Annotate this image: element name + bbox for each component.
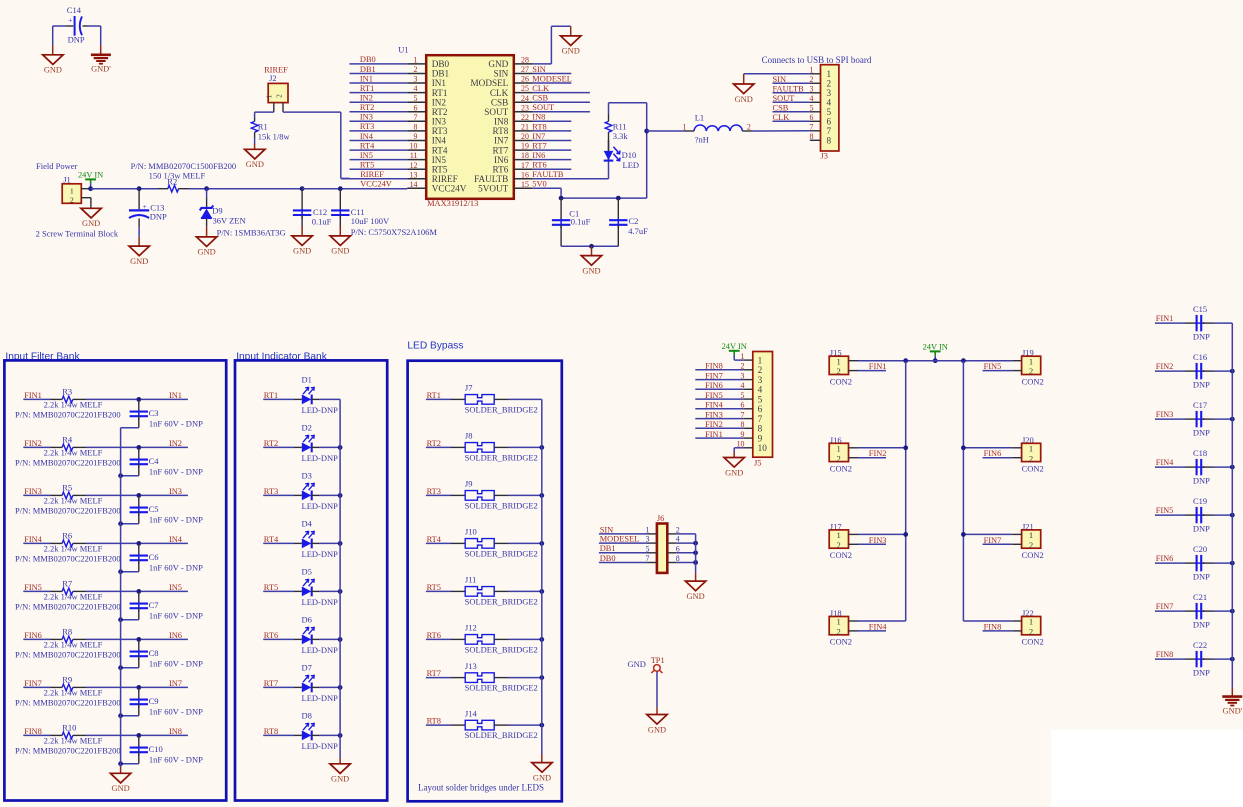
- svg-text:D5: D5: [302, 566, 312, 576]
- wire net FIN8 to J22-2: [983, 630, 1013, 632]
- LED D10: [608, 140, 610, 161]
- svg-text:10: 10: [758, 443, 768, 453]
- svg-text:TP1: TP1: [651, 656, 665, 665]
- svg-text:RT6: RT6: [427, 631, 441, 640]
- wire net RT7: [533, 149, 572, 151]
- svg-text:FIN1: FIN1: [24, 391, 42, 400]
- svg-text:FIN2: FIN2: [869, 449, 887, 458]
- pin J16-1: [849, 447, 859, 449]
- wire J6-2 to GND bus: [677, 533, 696, 535]
- svg-text:CON2: CON2: [1022, 637, 1044, 647]
- svg-text:17: 17: [521, 161, 529, 170]
- wire D8 to bus: [312, 734, 319, 736]
- svg-text:15k 1/8w: 15k 1/8w: [258, 132, 291, 142]
- pin U1-7 IN3: [407, 120, 426, 122]
- svg-text:2: 2: [275, 94, 284, 98]
- wire J6 GND bus: [695, 534, 697, 573]
- pin U1-5 IN2: [407, 101, 426, 103]
- capacitor C12: [301, 189, 303, 211]
- svg-text:IN7: IN7: [169, 679, 182, 688]
- junction C6: [136, 541, 141, 546]
- ground GND (C14 left): [43, 55, 63, 65]
- svg-text:J12: J12: [465, 623, 477, 633]
- svg-text:L1: L1: [695, 112, 704, 122]
- wire C22 to bus: [1213, 658, 1232, 660]
- svg-text:P/N: 1SMB36AT3G: P/N: 1SMB36AT3G: [217, 227, 286, 237]
- svg-text:GND: GND: [627, 659, 645, 669]
- junction J6 GND bus 8: [693, 560, 698, 565]
- wire filter bank bus: [120, 428, 122, 767]
- svg-text:U1: U1: [398, 45, 408, 55]
- svg-text:FAULTB: FAULTB: [532, 170, 564, 179]
- svg-text:GND': GND': [91, 65, 111, 74]
- svg-text:2.2k 1/4w MELF: 2.2k 1/4w MELF: [44, 447, 103, 457]
- junction filter bus row 6: [118, 665, 123, 670]
- wire RT4 to J10: [426, 542, 451, 544]
- wire D9 to GND: [206, 227, 208, 237]
- wire net MODESEL to J6-3: [599, 542, 648, 544]
- wire RT3 to J9: [426, 494, 451, 496]
- svg-text:RT4: RT4: [264, 535, 279, 544]
- svg-text:4.7uF: 4.7uF: [628, 226, 648, 236]
- svg-text:DNP: DNP: [1193, 475, 1210, 485]
- svg-text:IN3: IN3: [169, 487, 182, 496]
- pin J22-1: [1012, 620, 1021, 622]
- wire J11 to bus: [494, 590, 508, 592]
- svg-text:1: 1: [1029, 530, 1033, 540]
- svg-text:Connects to USB to SPI board: Connects to USB to SPI board: [762, 55, 872, 65]
- svg-text:RT1: RT1: [360, 84, 374, 93]
- pin J3-8: [810, 139, 821, 141]
- pin U1-19 RT7: [514, 149, 533, 151]
- svg-text:GND: GND: [130, 257, 148, 266]
- wire J16-1 to bus: [858, 447, 906, 449]
- svg-text:19: 19: [521, 142, 529, 151]
- svg-text:24V IN: 24V IN: [923, 342, 948, 351]
- pin J5-6: [743, 408, 753, 410]
- svg-text:RT8: RT8: [532, 122, 546, 131]
- junction C11: [338, 186, 343, 191]
- svg-text:2: 2: [414, 65, 418, 74]
- svg-text:P/N: MMB02070C2201FB200: P/N: MMB02070C2201FB200: [15, 554, 121, 564]
- wire U1 pin28 GND: [533, 63, 552, 65]
- svg-text:3: 3: [414, 75, 418, 84]
- wire R4 to junction: [87, 446, 188, 448]
- junction filter bus row 7: [118, 713, 123, 718]
- pin J5-1: [743, 359, 753, 361]
- svg-text:C15: C15: [1193, 304, 1207, 314]
- svg-text:J14: J14: [465, 708, 478, 718]
- svg-text:FIN5: FIN5: [24, 583, 42, 592]
- wire net RT2 to U1 pin 6: [350, 111, 408, 113]
- LED D8: [302, 731, 312, 741]
- junction filter bus row 4: [118, 569, 123, 574]
- wire C21 to bus: [1213, 610, 1232, 612]
- svg-text:IN6: IN6: [169, 631, 182, 640]
- svg-text:2: 2: [1029, 627, 1033, 637]
- svg-text:5V0: 5V0: [532, 180, 546, 189]
- pin J18-2: [849, 630, 859, 632]
- svg-text:1nF 60V - DNP: 1nF 60V - DNP: [149, 658, 203, 668]
- svg-text:IN4: IN4: [432, 136, 447, 146]
- LED D6: [302, 635, 312, 645]
- svg-text:GND: GND: [725, 468, 743, 477]
- svg-text:12: 12: [410, 161, 418, 170]
- svg-text:GND: GND: [198, 248, 216, 257]
- svg-text:D2: D2: [302, 422, 312, 432]
- wire net RT1 to U1 pin 4: [350, 92, 408, 94]
- capacitor C16: [1155, 370, 1185, 372]
- ground GND (U1 pin28): [561, 36, 581, 46]
- svg-text:IN2: IN2: [432, 97, 447, 107]
- wire net FIN2 to J16-2: [858, 457, 886, 459]
- svg-text:R8: R8: [62, 626, 72, 636]
- ground GND (TP1): [647, 715, 667, 725]
- wire net FIN3 to J5-7: [695, 418, 743, 420]
- wire RT6 to J12: [426, 638, 451, 640]
- wire L1 to J3 pin7: [742, 130, 752, 132]
- ground GND (filter bank): [110, 773, 130, 783]
- svg-text:J6: J6: [657, 514, 664, 523]
- svg-text:IN2: IN2: [169, 439, 182, 448]
- wire D6 to bus: [312, 638, 319, 640]
- svg-text:P/N: MMB02070C2201FB200: P/N: MMB02070C2201FB200: [15, 458, 121, 468]
- svg-text:13: 13: [410, 170, 418, 179]
- wire J3 pin1 to GND: [744, 73, 810, 75]
- svg-text:RT3: RT3: [427, 487, 441, 496]
- svg-text:FIN8: FIN8: [24, 727, 42, 736]
- svg-text:D8: D8: [302, 710, 312, 720]
- LED D1: [302, 395, 312, 405]
- wire 5V0 from U1 pin15: [560, 188, 562, 198]
- svg-text:CLK: CLK: [773, 113, 790, 122]
- svg-text:CON2: CON2: [830, 376, 852, 386]
- junction C2: [616, 196, 621, 201]
- svg-text:FIN1: FIN1: [705, 430, 723, 439]
- ground GND (J5): [724, 458, 744, 468]
- capacitor C8: [138, 639, 140, 651]
- wire net SIN to J6-1: [599, 533, 648, 535]
- svg-text:IN7: IN7: [532, 132, 545, 141]
- svg-text:FIN6: FIN6: [1156, 554, 1174, 563]
- svg-text:Layout solder bridges under LE: Layout solder bridges under LEDS: [418, 783, 544, 793]
- svg-text:C8: C8: [149, 648, 159, 658]
- svg-text:5VOUT: 5VOUT: [478, 184, 508, 194]
- svg-text:C3: C3: [149, 408, 159, 418]
- pin J5-10: [743, 447, 753, 449]
- svg-text:FIN4: FIN4: [705, 401, 723, 410]
- svg-text:J3: J3: [821, 152, 828, 161]
- svg-text:1: 1: [683, 123, 687, 132]
- wire to GND (C1/C2): [591, 246, 593, 255]
- ground GND (bypass bank): [532, 763, 552, 773]
- svg-text:R6: R6: [62, 530, 72, 540]
- LED D4: [302, 539, 312, 549]
- svg-text:R9: R9: [62, 674, 72, 684]
- svg-text:FIN5: FIN5: [1156, 506, 1174, 515]
- resistor R1: [254, 118, 256, 121]
- svg-text:GND: GND: [44, 66, 62, 75]
- svg-text:FIN8: FIN8: [984, 622, 1002, 631]
- wire R1 to GND: [254, 138, 256, 144]
- solder bridge J13: [465, 673, 494, 683]
- svg-text:CSB: CSB: [773, 104, 789, 113]
- svg-text:C14: C14: [67, 5, 82, 15]
- pin J20-1: [1012, 447, 1021, 449]
- capacitor C5: [138, 495, 140, 507]
- svg-text:0.1uF: 0.1uF: [312, 217, 332, 227]
- LED D7: [302, 683, 312, 693]
- junction GND (C1/C2): [589, 244, 594, 249]
- svg-text:LED-DNP: LED-DNP: [302, 501, 339, 511]
- svg-text:SIN: SIN: [600, 525, 614, 534]
- wire R8 to junction: [87, 638, 188, 640]
- pin J19-2: [1012, 370, 1021, 372]
- svg-text:C19: C19: [1193, 496, 1207, 506]
- svg-text:IN6: IN6: [494, 155, 509, 165]
- svg-text:GND: GND: [582, 266, 600, 275]
- junction C3: [136, 397, 141, 402]
- wire net DB1 to J6-5: [599, 552, 648, 554]
- svg-text:SOUT: SOUT: [773, 94, 795, 103]
- svg-text:SOUT: SOUT: [532, 103, 554, 112]
- svg-text:20: 20: [521, 132, 529, 141]
- svg-text:LED-DNP: LED-DNP: [302, 453, 339, 463]
- pin U1-9 IN4: [407, 140, 426, 142]
- solder bridge J8: [465, 443, 494, 453]
- capacitor C6: [138, 543, 140, 555]
- svg-text:D1: D1: [302, 374, 312, 384]
- wire net FIN7 to J5-3: [695, 379, 743, 381]
- wire C14 right to GND': [100, 26, 102, 45]
- wire left CON2 bus: [905, 361, 907, 621]
- svg-text:CSB: CSB: [532, 94, 548, 103]
- junction left bus top: [903, 358, 908, 363]
- svg-text:FIN7: FIN7: [1156, 602, 1174, 611]
- pin J5-2: [743, 369, 753, 371]
- wire net MODESEL: [533, 82, 572, 84]
- svg-text:GND: GND: [293, 247, 311, 256]
- junction indicator bus row 4: [338, 541, 343, 546]
- wire net CLK to J3-6: [773, 120, 810, 122]
- junction C1: [559, 196, 564, 201]
- wire C5 to bus: [121, 523, 139, 525]
- wire net FIN6 to J20-2: [983, 457, 1013, 459]
- wire net IN1 to U1 pin 3: [350, 82, 408, 84]
- svg-text:1: 1: [836, 530, 840, 540]
- wire J18-1 to bus: [858, 620, 906, 622]
- pin U1-24 CSB: [514, 101, 533, 103]
- pin J3-1: [810, 73, 821, 75]
- svg-text:SOLDER_BRIDGE2: SOLDER_BRIDGE2: [465, 405, 538, 415]
- pin J6-5 DB1: [648, 552, 657, 554]
- junction C7: [136, 589, 141, 594]
- svg-text:4: 4: [827, 98, 832, 108]
- svg-text:DB1: DB1: [360, 65, 376, 74]
- svg-text:LED: LED: [623, 160, 640, 170]
- junction 24V IN at J1: [88, 186, 93, 191]
- wire net CLK: [533, 92, 590, 94]
- wire D4 to bus: [312, 542, 319, 544]
- svg-text:C9: C9: [149, 696, 159, 706]
- wire C10 to bus: [121, 763, 139, 765]
- junction 24V IN (grid): [933, 358, 938, 363]
- svg-text:16: 16: [521, 170, 529, 179]
- wire right CON2 bus: [962, 361, 964, 621]
- solder bridge J10: [465, 539, 494, 549]
- svg-text:C7: C7: [149, 600, 159, 610]
- wire J22-1 to bus: [963, 620, 1012, 622]
- wire bypass bank bus: [541, 399, 543, 754]
- svg-text:SOLDER_BRIDGE2: SOLDER_BRIDGE2: [465, 730, 538, 740]
- svg-text:RT6: RT6: [532, 161, 546, 170]
- junction right bus top: [961, 358, 966, 363]
- wire net CSB: [533, 101, 590, 103]
- junction indicator bus row 8: [338, 733, 343, 738]
- svg-text:DNP: DNP: [1193, 379, 1210, 389]
- svg-text:C18: C18: [1193, 448, 1207, 458]
- svg-text:DB0: DB0: [600, 554, 616, 563]
- svg-text:J1: J1: [63, 174, 71, 184]
- pin J3-2: [810, 82, 821, 84]
- pin U1-12 RT5: [407, 168, 426, 170]
- pin J3-7: [810, 130, 821, 132]
- wire J20-1 to bus: [963, 447, 1012, 449]
- svg-text:GND': GND': [1222, 707, 1242, 716]
- wire net RT5 to U1 pin 12: [350, 168, 408, 170]
- wire C4 to bus: [121, 475, 139, 477]
- pin U1-18 IN6: [514, 159, 533, 161]
- svg-text:SOLDER_BRIDGE2: SOLDER_BRIDGE2: [465, 549, 538, 559]
- svg-text:2: 2: [1029, 540, 1033, 550]
- svg-text:FIN6: FIN6: [24, 631, 42, 640]
- junction bypass bus row 5: [539, 589, 544, 594]
- pin U1-27 SIN: [514, 73, 533, 75]
- svg-text:RT8: RT8: [264, 727, 278, 736]
- capacitor C13: [138, 189, 140, 210]
- svg-text:1: 1: [836, 356, 840, 366]
- svg-text:CLK: CLK: [532, 84, 549, 93]
- svg-text:2.2k 1/4w MELF: 2.2k 1/4w MELF: [44, 399, 103, 409]
- resistor R11: [608, 132, 610, 140]
- capacitor C1: [560, 198, 562, 220]
- svg-text:R11: R11: [613, 121, 627, 131]
- solder bridge J14: [465, 720, 494, 730]
- wire J8 to bus: [494, 446, 508, 448]
- pin J2-2 stub: [282, 103, 284, 113]
- junction indicator bus row 2: [338, 445, 343, 450]
- junction left bus J17: [903, 532, 908, 537]
- junction left bus J16: [903, 445, 908, 450]
- svg-text:21: 21: [521, 123, 529, 132]
- LED D2: [302, 443, 312, 453]
- wire C14 left to GND: [52, 26, 54, 45]
- svg-text:24: 24: [521, 94, 529, 103]
- pin J3-5: [810, 111, 821, 113]
- junction C8: [136, 637, 141, 642]
- pin J22-2: [1012, 630, 1021, 632]
- junction C5: [136, 493, 141, 498]
- pin J5-5: [743, 398, 753, 400]
- svg-text:D6: D6: [302, 614, 312, 624]
- svg-text:RT1: RT1: [264, 391, 278, 400]
- resistor R6: [23, 542, 50, 544]
- svg-text:1: 1: [836, 443, 840, 453]
- wire J17-1 to bus: [858, 533, 906, 535]
- ground GND (C12): [292, 236, 312, 246]
- svg-text:18: 18: [521, 151, 529, 160]
- pin J6-4: [667, 542, 677, 544]
- svg-text:4: 4: [810, 94, 814, 103]
- connector J3: [821, 65, 839, 151]
- svg-text:IN5: IN5: [169, 583, 182, 592]
- blank area bottom right: [1051, 730, 1243, 807]
- svg-text:RT3: RT3: [432, 126, 448, 136]
- pin J6-7 DB0: [648, 562, 657, 564]
- wire net RT8: [533, 130, 572, 132]
- pin J3-4: [810, 101, 821, 103]
- svg-text:24V IN: 24V IN: [722, 342, 747, 351]
- wire J2-2 to U1 pin13 RIREF: [283, 111, 341, 113]
- pin U1-21 RT8: [514, 130, 533, 132]
- svg-text:IN5: IN5: [360, 151, 373, 160]
- pin U1-28 GND: [514, 63, 533, 65]
- wire net FIN5 to J19-2: [983, 370, 1013, 372]
- solder bridge J7: [465, 395, 494, 405]
- svg-text:D7: D7: [302, 662, 312, 672]
- wire J14 to bus: [494, 724, 508, 726]
- svg-text:6: 6: [827, 117, 832, 127]
- svg-text:2: 2: [836, 453, 840, 463]
- svg-text:0.1uF: 0.1uF: [571, 217, 591, 227]
- svg-text:FIN3: FIN3: [869, 536, 887, 545]
- svg-text:1: 1: [414, 56, 418, 65]
- svg-text:1nF 60V - DNP: 1nF 60V - DNP: [149, 706, 203, 716]
- junction filter bus row 5: [118, 617, 123, 622]
- earth ground GND' (C14 right): [91, 53, 111, 56]
- svg-text:SOLDER_BRIDGE2: SOLDER_BRIDGE2: [465, 597, 538, 607]
- svg-text:VCC24V: VCC24V: [360, 180, 392, 189]
- resistor R10: [23, 734, 50, 736]
- svg-text:1nF 60V - DNP: 1nF 60V - DNP: [149, 562, 203, 572]
- solder bridge J12: [465, 635, 494, 645]
- pin J21-1: [1012, 533, 1021, 535]
- svg-text:RIREF: RIREF: [432, 174, 458, 184]
- junction C13: [137, 186, 142, 191]
- svg-text:RT8: RT8: [493, 126, 509, 136]
- svg-text:GND: GND: [488, 59, 508, 69]
- junction bypass bus row 6: [539, 637, 544, 642]
- svg-text:RT1: RT1: [427, 391, 441, 400]
- ground GND (indicator bank): [330, 764, 350, 774]
- wire RIREF to pin13: [341, 178, 408, 180]
- svg-text:GND: GND: [648, 725, 666, 734]
- svg-text:GND: GND: [533, 773, 551, 782]
- wire C16 to bus: [1213, 370, 1232, 372]
- wire net FIN1 to J15-2: [858, 370, 886, 372]
- junction bypass bus row 3: [539, 493, 544, 498]
- wire J5 pin10 to GND: [734, 447, 743, 449]
- wire net RT6: [533, 168, 572, 170]
- svg-text:FIN7: FIN7: [705, 371, 723, 380]
- svg-text:VCC24V: VCC24V: [432, 184, 467, 194]
- svg-text:2: 2: [70, 196, 74, 205]
- wire indicator bank bus: [339, 399, 341, 758]
- svg-text:SOLDER_BRIDGE2: SOLDER_BRIDGE2: [465, 453, 538, 463]
- svg-text:FIN2: FIN2: [705, 420, 723, 429]
- svg-text:J11: J11: [465, 575, 477, 585]
- svg-text:DB0: DB0: [360, 55, 376, 64]
